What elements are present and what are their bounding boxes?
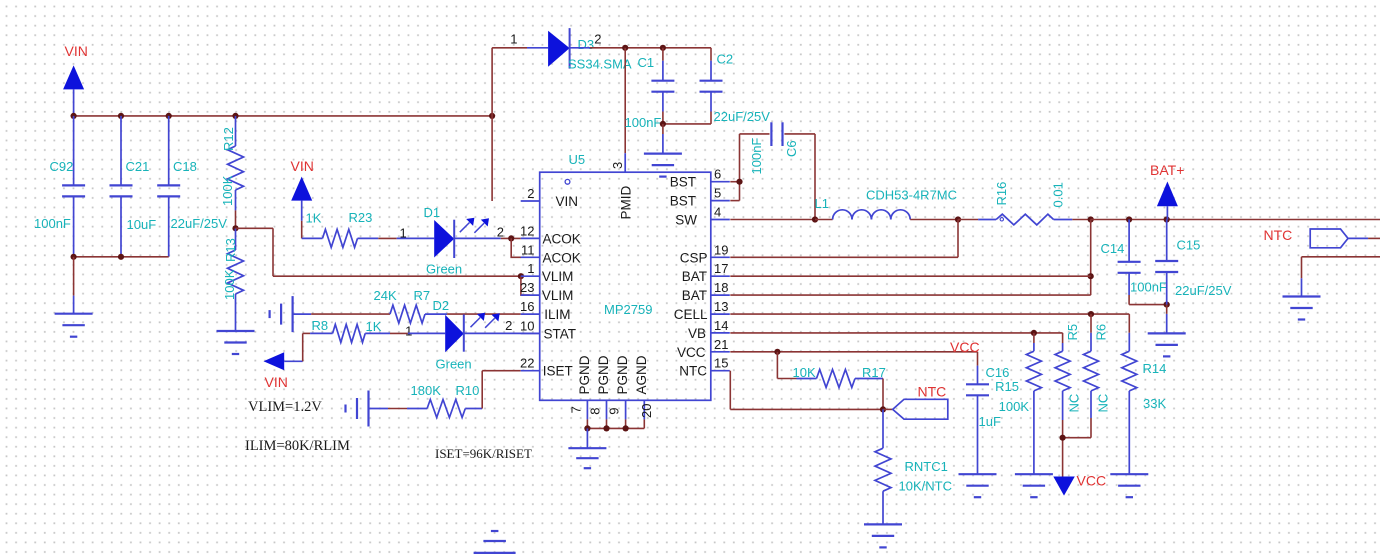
svg-text:PGND: PGND	[596, 355, 611, 394]
wire R8 to D2	[390, 332, 408, 334]
node SW	[812, 216, 818, 222]
ground (RNTC1)	[864, 523, 902, 525]
wire BST pins to C6	[730, 181, 739, 183]
capacitor C1	[662, 48, 664, 61]
IC U5 MP2759 body	[540, 172, 711, 400]
svg-text:100nF: 100nF	[34, 216, 71, 231]
svg-text:NTC: NTC	[918, 384, 947, 400]
node CELL/R6	[1088, 311, 1094, 317]
wire BAT to pin 18	[730, 294, 1090, 296]
svg-text:14: 14	[714, 318, 728, 333]
ground (R15)	[1015, 473, 1053, 475]
svg-text:AGND: AGND	[634, 355, 649, 394]
node BAT17	[1088, 273, 1094, 279]
connector NTC (left)	[893, 399, 948, 419]
resistor R16 (0.01 sense)	[958, 219, 978, 221]
svg-text:11: 11	[521, 242, 535, 257]
svg-text:Green: Green	[426, 262, 462, 277]
svg-text:10K: 10K	[793, 365, 816, 380]
ground (R10 ISET, sideways)	[367, 391, 369, 427]
ground (bottom, inverted)	[491, 530, 499, 532]
node PGND junctions	[584, 425, 590, 431]
ground (R13)	[217, 330, 255, 332]
svg-text:18: 18	[714, 280, 728, 295]
svg-text:NTC: NTC	[679, 364, 707, 379]
svg-text:VIN: VIN	[291, 158, 314, 174]
svg-text:1: 1	[527, 261, 534, 276]
svg-text:0.01: 0.01	[1051, 182, 1066, 207]
pin marker (U5 dot)	[565, 179, 570, 184]
wire PGND bar	[586, 419, 588, 428]
resistor RNTC1	[882, 409, 884, 448]
svg-text:15: 15	[714, 356, 728, 371]
ground (C1/C2)	[662, 124, 664, 134]
svg-text:1: 1	[510, 32, 517, 47]
svg-text:BAT: BAT	[682, 269, 707, 284]
svg-text:Green: Green	[436, 357, 472, 372]
svg-text:22: 22	[520, 356, 534, 371]
svg-text:R14: R14	[1143, 361, 1167, 376]
node NTC	[880, 406, 886, 412]
node VLIM pin1	[518, 273, 524, 279]
resistor R15	[1033, 333, 1035, 343]
resistor R12	[235, 116, 237, 146]
svg-text:BAT: BAT	[682, 288, 707, 303]
node PMID top	[622, 45, 628, 51]
svg-text:2: 2	[594, 32, 601, 47]
svg-text:1: 1	[405, 324, 412, 339]
svg-text:ILIM: ILIM	[544, 307, 570, 322]
wire C6 to SW	[814, 134, 816, 220]
node VCC/R17	[774, 349, 780, 355]
resistor R6	[1090, 314, 1092, 333]
svg-text:R16: R16	[994, 182, 1009, 206]
capacitor C16	[977, 352, 979, 366]
ground (C15)	[1166, 305, 1168, 314]
svg-text:VCC: VCC	[677, 345, 706, 360]
wire D3 cathode to PMID/C1/C2	[570, 47, 590, 49]
wire VLIM elbow to pin 23	[521, 276, 530, 295]
svg-text:3: 3	[610, 162, 625, 169]
svg-text:VCC: VCC	[1077, 473, 1107, 489]
svg-text:R5: R5	[1065, 324, 1080, 341]
svg-text:12: 12	[520, 223, 534, 238]
svg-text:22uF/25V: 22uF/25V	[171, 216, 228, 231]
svg-text:NTC: NTC	[1264, 227, 1293, 243]
svg-text:SW: SW	[675, 213, 697, 228]
node VIN rail junctions	[71, 113, 77, 119]
svg-text:PGND: PGND	[615, 355, 630, 394]
node C1 bottom	[660, 121, 666, 127]
svg-text:100nF: 100nF	[749, 138, 764, 175]
node C1 top	[660, 45, 666, 51]
svg-text:8: 8	[588, 408, 603, 415]
svg-text:4: 4	[714, 205, 721, 220]
svg-text:RNTC1: RNTC1	[905, 459, 948, 474]
svg-text:CSP: CSP	[680, 250, 708, 265]
wire NTC return	[1302, 256, 1380, 258]
capacitor C21	[120, 116, 122, 185]
resistor R8	[310, 332, 333, 334]
svg-text:1uF: 1uF	[979, 414, 1001, 429]
wire R5/R6 bottoms	[1063, 437, 1091, 439]
wire ACOK elbow to pin 11	[511, 238, 521, 257]
svg-text:1K: 1K	[306, 211, 322, 226]
wire NTC right tail	[1368, 237, 1380, 239]
power flag VCC (down)	[1053, 477, 1075, 496]
svg-text:C6: C6	[784, 140, 799, 157]
capacitor C92	[73, 116, 75, 185]
svg-text:VIN: VIN	[265, 374, 288, 390]
capacitor C14	[1128, 220, 1130, 262]
capacitor C18	[168, 116, 170, 185]
svg-text:100nF: 100nF	[1130, 280, 1167, 295]
wire gnd to R10	[388, 408, 407, 410]
node caps bottom junctions	[71, 254, 77, 260]
wire VLIM divider to pins 1/23	[236, 227, 274, 229]
svg-text:7: 7	[569, 406, 584, 413]
svg-text:6: 6	[714, 167, 721, 182]
ground (R14)	[1110, 473, 1148, 475]
svg-text:R13: R13	[223, 238, 238, 262]
svg-text:ACOK: ACOK	[543, 231, 581, 246]
wire R17 to NTC node	[882, 379, 884, 410]
svg-text:VLIM: VLIM	[542, 269, 574, 284]
svg-text:VIN: VIN	[556, 194, 579, 209]
svg-text:SS34.SMA: SS34.SMA	[568, 57, 632, 72]
wire D3 anode	[492, 47, 527, 49]
svg-text:ISET=96K/RISET: ISET=96K/RISET	[435, 446, 532, 461]
wire SW pin 4	[730, 219, 815, 221]
svg-text:C18: C18	[173, 159, 197, 174]
wire CELL pin 13	[730, 313, 1129, 315]
svg-text:C92: C92	[50, 159, 74, 174]
svg-text:100K: 100K	[220, 175, 235, 206]
svg-text:13: 13	[714, 299, 728, 314]
node ACOK	[508, 235, 514, 241]
resistor R10	[407, 408, 427, 410]
svg-text:R12: R12	[221, 127, 236, 151]
pin stubs U5 bottom	[586, 400, 588, 419]
node R16 out	[1088, 216, 1094, 222]
wire C2 bottom to C1	[663, 123, 711, 125]
led D1	[397, 237, 435, 239]
wire BAT to pin 17	[730, 275, 1090, 277]
wire L1 to R16	[910, 219, 958, 221]
svg-text:R6: R6	[1094, 324, 1109, 341]
ground (NTC return)	[1301, 278, 1303, 296]
resistor R23	[302, 237, 323, 239]
wire PMID riser	[624, 48, 626, 153]
wire C14 bottom to C15	[1129, 304, 1167, 306]
svg-text:VIN: VIN	[65, 43, 88, 59]
led D2	[408, 332, 445, 334]
led D1 arrows	[460, 223, 470, 233]
svg-text:R17: R17	[862, 365, 886, 380]
svg-text:2: 2	[505, 318, 512, 333]
wire BAT+ rail	[1091, 219, 1380, 221]
svg-text:BAT+: BAT+	[1150, 162, 1184, 178]
svg-text:U5: U5	[569, 152, 586, 167]
svg-text:CELL: CELL	[674, 307, 708, 322]
wire R7 to ILIM pin 16	[447, 313, 521, 315]
svg-text:2: 2	[527, 186, 534, 201]
svg-text:21: 21	[714, 337, 728, 352]
ground (R7 ILIM, sideways)	[292, 296, 294, 332]
svg-text:10: 10	[520, 318, 534, 333]
svg-text:PGND: PGND	[577, 355, 592, 394]
capacitor C2	[710, 48, 712, 61]
wire NTC pin 15	[729, 371, 731, 410]
svg-text:NC: NC	[1067, 394, 1082, 413]
svg-text:PMID: PMID	[619, 185, 634, 219]
resistor R14	[1128, 314, 1130, 333]
svg-text:100K: 100K	[222, 269, 237, 300]
svg-text:10K/NTC: 10K/NTC	[899, 479, 952, 494]
svg-text:C14: C14	[1101, 241, 1125, 256]
svg-text:100nF: 100nF	[625, 115, 662, 130]
wire caps bottom	[74, 256, 169, 258]
svg-text:VLIM=1.2V: VLIM=1.2V	[248, 399, 322, 415]
svg-text:33K: 33K	[1143, 396, 1166, 411]
node VB/R15	[1031, 330, 1037, 336]
svg-text:R8: R8	[312, 318, 329, 333]
svg-text:D3: D3	[578, 37, 595, 52]
svg-text:R15: R15	[995, 379, 1019, 394]
led D2 arrows	[471, 318, 481, 328]
svg-text:R10: R10	[456, 383, 480, 398]
svg-text:D1: D1	[424, 205, 441, 220]
svg-text:C15: C15	[1177, 238, 1201, 253]
capacitor C6	[740, 133, 770, 135]
svg-text:5: 5	[714, 186, 721, 201]
wire BAT riser	[1090, 220, 1092, 296]
svg-text:C21: C21	[126, 159, 150, 174]
svg-text:ACOK: ACOK	[543, 250, 581, 265]
resistor R13	[235, 228, 237, 250]
node C15 bottom	[1164, 302, 1170, 308]
node R12/R13 divider	[232, 225, 238, 231]
pin stubs U5 right	[711, 181, 730, 183]
svg-text:20: 20	[639, 404, 654, 418]
svg-text:22uF/25V: 22uF/25V	[714, 109, 771, 124]
capacitor C15	[1166, 220, 1168, 262]
connector NTC (right)	[1310, 229, 1348, 248]
inductor L1	[833, 210, 852, 220]
svg-text:17: 17	[714, 261, 728, 276]
wire R23 to D1	[378, 237, 396, 239]
pin stubs U5 left	[521, 200, 540, 202]
svg-text:C16: C16	[986, 365, 1010, 380]
svg-text:VB: VB	[688, 326, 706, 341]
wire VCC pin 21	[730, 351, 977, 353]
node C14 top	[1126, 216, 1132, 222]
wire D1 cathode to ACOK	[501, 237, 521, 239]
svg-text:100K: 100K	[999, 399, 1030, 414]
ground (PGND)	[586, 428, 588, 448]
wire VB pin 14	[730, 332, 1062, 334]
svg-text:R23: R23	[349, 210, 373, 225]
svg-text:10uF: 10uF	[127, 217, 157, 232]
svg-text:ILIM=80K/RLIM: ILIM=80K/RLIM	[245, 438, 350, 454]
svg-text:23: 23	[520, 280, 534, 295]
svg-text:ISET: ISET	[543, 364, 573, 379]
wire VIN rail	[74, 115, 493, 117]
svg-text:22uF/25V: 22uF/25V	[1175, 283, 1232, 298]
svg-text:L1: L1	[815, 196, 829, 211]
svg-text:1K: 1K	[366, 319, 382, 334]
resistor R17	[776, 352, 778, 379]
ground (C16)	[959, 473, 997, 475]
svg-text:C1: C1	[638, 55, 655, 70]
wire VIN to R8	[302, 333, 304, 361]
svg-text:VLIM: VLIM	[542, 288, 574, 303]
svg-text:19: 19	[714, 242, 728, 257]
resistor R7	[390, 305, 425, 323]
node BAT+ rail	[1164, 216, 1170, 222]
resistor R5	[1062, 333, 1064, 343]
node BST	[736, 179, 742, 185]
diode D3	[548, 31, 570, 67]
svg-text:STAT: STAT	[544, 326, 577, 341]
wire VIN riser to D3	[491, 48, 493, 201]
svg-text:R7: R7	[414, 288, 431, 303]
svg-text:CDH53-4R7MC: CDH53-4R7MC	[866, 188, 957, 203]
svg-text:BST: BST	[670, 194, 696, 209]
wire gnd to R7	[311, 313, 390, 315]
svg-text:NC: NC	[1096, 394, 1111, 413]
svg-text:D2: D2	[433, 298, 450, 313]
svg-text:9: 9	[607, 408, 622, 415]
wire SW to L1	[815, 219, 833, 221]
svg-text:MP2759: MP2759	[604, 302, 652, 317]
wire NTC node to connector	[883, 408, 893, 410]
svg-text:24K: 24K	[374, 288, 397, 303]
svg-text:16: 16	[520, 299, 534, 314]
svg-text:2: 2	[497, 225, 504, 240]
node R5 bottom	[1060, 435, 1066, 441]
ground (input caps)	[73, 257, 75, 296]
wire R10 to ISET pin 22	[481, 371, 483, 409]
svg-text:BST: BST	[670, 175, 696, 190]
svg-text:180K: 180K	[411, 383, 442, 398]
svg-text:VCC: VCC	[950, 339, 980, 355]
wire CSP to pin 19	[957, 220, 959, 258]
node CSP sense	[955, 216, 961, 222]
svg-text:C2: C2	[717, 52, 734, 67]
